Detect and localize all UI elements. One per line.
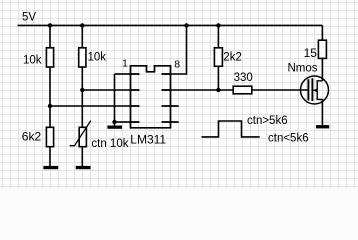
resistor R 10k (left) [46,48,53,67]
pin 7 inner [162,89,171,91]
svg-text:1: 1 [122,57,128,69]
svg-text:2k2: 2k2 [223,52,242,64]
pin 2 inner [131,89,140,91]
svg-text:15: 15 [304,46,318,60]
op-amp U1 LM311 body [131,66,171,128]
node 2k2-output [216,88,220,92]
wire pin3 to col1 [50,105,131,107]
pin 5 stub [162,121,179,123]
thermistor diagonal [70,121,91,146]
svg-text:330: 330 [234,72,253,84]
wire rail corner to R15 [321,25,323,40]
pin 4 inner [131,121,140,123]
resistor 15 [318,40,326,58]
wire pin2 to col2 [82,89,130,91]
svg-text:10k: 10k [88,52,107,64]
wire col1 bottom [49,147,51,167]
wire 5V rail [18,24,323,26]
svg-text:10k: 10k [23,55,42,67]
gate bar [307,79,309,100]
svg-text:5V: 5V [22,12,36,24]
wire 2k2 bottom [217,66,219,90]
pin 8 inner [162,73,171,75]
wire R15 to drain [321,58,323,81]
wire 2k2 top [217,25,219,47]
node rail-pin8 [184,23,188,27]
wire col2 bottom [81,147,83,167]
resistor 330 (horizontal) [233,86,252,94]
node col2-pin2 [80,88,84,92]
wire col1 mid [49,67,51,127]
wire col2 mid [81,67,83,127]
wire col1 top [49,25,51,47]
drain jog [317,81,322,90]
wire source to gnd [321,99,323,125]
transistor Q1 Nmos [301,76,329,104]
wire 330 to gate [252,89,309,91]
wire pin1 left [115,73,131,75]
ground (thermistor) [76,166,91,169]
svg-text:Nmos: Nmos [288,63,318,75]
thermistor ctn 10k body [79,127,86,146]
resistor R 10k (second) [79,48,86,67]
wire pin8 to rail [171,25,187,74]
node rail-2k2 [216,23,220,27]
pin 3 inner [131,105,140,107]
resistor 2k2 [214,48,222,67]
svg-text:ctn 10k: ctn 10k [91,138,128,150]
svg-text:ctn>5k6: ctn>5k6 [247,115,288,127]
wire pin4 left [115,121,131,123]
bulk arrow [313,88,317,92]
node rail-col2 [80,23,84,27]
svg-text:6k2: 6k2 [22,130,42,144]
waveform pulse [202,121,260,137]
node rail-col1 [48,23,52,27]
channel bar [311,78,313,101]
svg-text:ctn<5k6: ctn<5k6 [268,132,309,144]
svg-text:LM311: LM311 [130,132,166,146]
pin 1 inner [131,73,140,75]
ground (LM311 pin1/4) [107,126,122,129]
wire pin1 down to gnd node [114,74,116,126]
node gnd-pin4 [112,120,116,124]
wire col2 top [81,25,83,47]
svg-text:8: 8 [174,58,180,70]
pin stubs LM311 [131,74,179,122]
ground (6k2) [43,166,58,169]
ground (Nmos source) [316,125,329,128]
node col1-pin3 [48,104,52,108]
source jog [317,90,322,99]
resistor 6k2 [46,127,53,146]
wire pin7 output [171,89,234,91]
pin 6 stub [162,105,179,107]
bulk stub [313,89,317,91]
